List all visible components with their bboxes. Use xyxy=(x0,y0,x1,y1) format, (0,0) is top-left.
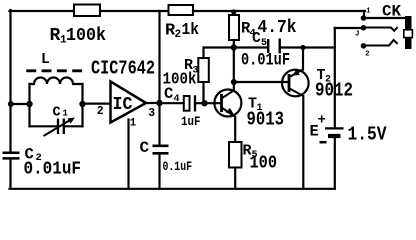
svg-text:4.7k: 4.7k xyxy=(258,17,297,38)
svg-text:100k: 100k xyxy=(66,26,106,46)
transistor T1 9013 xyxy=(214,90,241,117)
wire R3 top to R4 node xyxy=(204,48,234,59)
svg-text:IC: IC xyxy=(113,95,133,115)
label C1 xyxy=(53,106,69,121)
wire cap C to bottom rail xyxy=(158,155,160,189)
wire vertical from top rail to pin3 node xyxy=(158,11,160,103)
capacitor C5 xyxy=(268,39,280,54)
node base junction xyxy=(201,100,207,106)
wire jack middle contact to battery line xyxy=(335,27,364,29)
node R4 top rail xyxy=(231,9,236,14)
label R2 1k xyxy=(165,21,199,41)
label R5 xyxy=(243,143,258,162)
wire battery line top xyxy=(334,28,336,127)
svg-text:C: C xyxy=(252,31,261,47)
wire left rail upper xyxy=(9,10,11,151)
wire tank left tap xyxy=(11,103,30,105)
wire R3 bottom to base node xyxy=(202,82,204,103)
label C2 xyxy=(25,146,42,165)
node jack contact J xyxy=(361,25,367,31)
wire jack drop from top rail xyxy=(363,11,365,18)
battery E 1.5V xyxy=(325,128,344,136)
svg-text:0.1uF: 0.1uF xyxy=(163,160,193,174)
node R4 bottom junction xyxy=(231,44,237,50)
node jack contact 1 xyxy=(361,15,367,21)
node A: left rail to tank xyxy=(8,101,14,107)
resistor R3 xyxy=(198,58,209,82)
wire R4 bottom stub xyxy=(233,40,235,48)
svg-text:2: 2 xyxy=(175,29,182,41)
svg-text:100: 100 xyxy=(250,154,278,174)
wire IC pin3 to node xyxy=(146,102,160,104)
svg-text:R: R xyxy=(50,26,61,46)
label C5 xyxy=(252,31,267,49)
svg-text:3: 3 xyxy=(148,107,155,120)
transistor T2 9012 xyxy=(282,69,309,96)
resistor R2 xyxy=(169,5,194,15)
wire T1 collector up to R4 node xyxy=(233,48,235,91)
wire T2 emitter up to C5 node xyxy=(302,48,304,70)
wire pin3 node to C4 xyxy=(160,102,184,104)
node tank left xyxy=(26,101,32,107)
node T2 base junction xyxy=(231,79,237,85)
wire T2 collector down to bottom rail xyxy=(302,96,304,189)
svg-text:J: J xyxy=(355,31,360,39)
inductor L coil and tank frame xyxy=(30,78,83,127)
label R1 100k xyxy=(50,26,107,47)
capacitor C2 xyxy=(3,153,20,159)
wire top rail right segment xyxy=(193,10,365,12)
svg-text:1uF: 1uF xyxy=(181,115,201,129)
svg-text:0.01uF: 0.01uF xyxy=(241,51,290,71)
wire jack middle contact spring xyxy=(364,27,398,31)
svg-text:1.5V: 1.5V xyxy=(348,123,388,145)
op-amp U1 IC triangle xyxy=(111,82,147,123)
wire C5 to battery line xyxy=(281,46,335,48)
svg-text:100k: 100k xyxy=(163,71,197,90)
svg-text:1: 1 xyxy=(366,7,370,15)
wire jack contact 1 to plug xyxy=(364,17,406,19)
svg-text:1: 1 xyxy=(130,118,137,130)
svg-text:C: C xyxy=(140,139,150,157)
wire top rail middle segment xyxy=(100,10,169,12)
wire left rail lower xyxy=(9,160,11,189)
label R3 xyxy=(184,57,199,77)
label R4 xyxy=(241,20,256,40)
label T1 xyxy=(248,96,263,115)
capacitor C 0.1uF xyxy=(153,146,169,154)
wire bottom rail xyxy=(10,188,335,190)
node jack contact 2 xyxy=(361,43,367,49)
resistor R4 xyxy=(229,15,239,40)
svg-text:9013: 9013 xyxy=(247,109,285,131)
resistor R5 xyxy=(229,142,242,168)
svg-text:E: E xyxy=(310,123,319,141)
node T2 emitter junction xyxy=(300,45,305,50)
wire battery to bottom rail xyxy=(334,138,336,189)
label C4 xyxy=(164,85,180,105)
capacitor C1 (variable) xyxy=(44,118,76,137)
wire IC pin1 down xyxy=(127,120,129,189)
wire jack contact 2 spring xyxy=(364,40,398,46)
dashed line under L xyxy=(26,69,82,72)
svg-text:2: 2 xyxy=(365,50,369,58)
svg-text:1k: 1k xyxy=(182,21,200,40)
wire tank to IC pin2 xyxy=(83,102,111,104)
svg-text:1: 1 xyxy=(63,109,69,119)
svg-text:L: L xyxy=(41,52,50,68)
svg-text:C: C xyxy=(53,106,61,121)
jack plug body xyxy=(404,16,413,49)
wire R4 top stub xyxy=(233,11,235,15)
label T2 xyxy=(317,67,332,86)
wire T2 base xyxy=(234,81,289,83)
capacitor C4 xyxy=(184,95,195,111)
wire top rail left segment xyxy=(10,10,75,12)
resistor R1 xyxy=(74,5,100,17)
node pin3 junction xyxy=(156,100,162,106)
wire R5 to bottom rail xyxy=(234,168,236,189)
svg-text:0.01uF: 0.01uF xyxy=(24,160,82,180)
svg-text:2: 2 xyxy=(97,105,104,118)
wire pin3 node down to cap C xyxy=(158,103,160,145)
label battery minus xyxy=(320,141,327,144)
svg-text:4: 4 xyxy=(174,94,180,105)
svg-text:CIC7642: CIC7642 xyxy=(91,57,155,79)
node tank right xyxy=(79,101,85,107)
wire C4 to T1 base xyxy=(195,102,221,104)
wire R4 node to C5 xyxy=(234,46,267,48)
wire T1 emitter to R5 xyxy=(234,117,236,142)
